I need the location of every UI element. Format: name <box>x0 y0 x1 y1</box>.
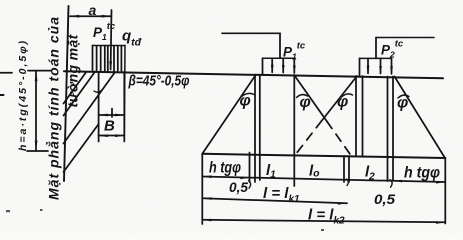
foundation U1 bracket above <box>222 33 280 58</box>
leader squiggle 0,5 right <box>390 180 392 188</box>
svg-text:φ: φ <box>240 93 251 110</box>
angle arc phi F2 left <box>342 94 353 97</box>
svg-text:Mặt phẳng tính toán của: Mặt phẳng tính toán của <box>46 16 62 200</box>
svg-text:φ: φ <box>397 95 408 112</box>
svg-text:φ: φ <box>337 94 348 111</box>
svg-text:0,5: 0,5 <box>229 179 248 195</box>
extension line left <box>201 154 203 224</box>
foundation F2 load line and arrows <box>360 58 393 75</box>
leader squiggle 0,5 left <box>249 181 251 189</box>
wire P1 action line with arrow <box>109 10 112 71</box>
angle arc phi F2 right <box>398 95 409 98</box>
F1 right spread slant (solid then dashed) <box>295 76 352 156</box>
F2 right spread slant <box>395 77 446 159</box>
scan speckles <box>6 209 324 231</box>
wall calculation-plane line <box>64 6 69 181</box>
F2 left spread slant (solid then dashed) <box>296 76 358 155</box>
small arc at block corner <box>94 90 102 92</box>
load block q_td (hatched) <box>93 46 126 72</box>
foundation U2 bracket above <box>376 38 434 59</box>
leader squiggle at lk1 end ticks <box>347 179 349 186</box>
svg-text:tường mặt: tường mặt <box>65 33 81 107</box>
h dimension line (left) <box>27 71 51 151</box>
dimension B <box>99 114 125 117</box>
svg-text:β=45°-0,5φ: β=45°-0,5φ <box>128 73 190 90</box>
svg-text:h tgφ: h tgφ <box>404 165 440 182</box>
foundation F1 load line and arrows <box>263 58 296 75</box>
foundation F2 body below ground <box>344 76 393 182</box>
soil hatch wedge lines <box>64 72 116 172</box>
svg-text:a: a <box>89 2 97 18</box>
wire B center tick <box>111 109 113 118</box>
svg-text:h=a·tg(45°-0,5φ): h=a·tg(45°-0,5φ) <box>17 39 29 151</box>
svg-text:B: B <box>104 118 115 135</box>
dimension row 2: l=lk1 <box>202 197 347 205</box>
base line of spread trapezoids <box>202 154 445 158</box>
svg-text:0,5: 0,5 <box>374 191 395 207</box>
svg-text:φ: φ <box>300 94 311 111</box>
angle arc phi F1 right <box>297 95 308 98</box>
B-box below ground <box>99 72 125 142</box>
dimension row 1 (cells) <box>202 175 445 183</box>
wire ground line main <box>64 71 443 78</box>
F1 left spread slant <box>202 75 255 154</box>
foundation F1 body below ground <box>250 75 295 186</box>
wire block right edge / B-box right <box>123 46 126 141</box>
wire ground stub far left <box>0 72 12 74</box>
dimension a <box>70 15 111 18</box>
dimension row 3: l=lk2 <box>202 219 445 224</box>
angle arc phi F1 left <box>242 93 255 96</box>
svg-text:h tgφ: h tgφ <box>209 160 241 177</box>
extension line right <box>444 158 446 224</box>
wire left edge tick <box>0 94 4 96</box>
